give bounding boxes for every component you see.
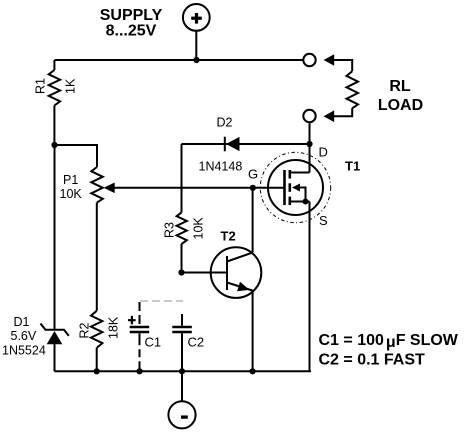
mosfet T1 <box>260 152 330 222</box>
svg-text:C1: C1 <box>145 335 162 350</box>
supply terminal + <box>183 4 210 60</box>
wire RL bottom <box>334 108 353 116</box>
wire R2 to bottom rail <box>96 348 98 371</box>
wire P1 to R2 <box>96 203 98 311</box>
node emitter bottom junction <box>250 368 256 374</box>
svg-text:LOAD: LOAD <box>378 97 423 114</box>
resistor R1 <box>49 70 60 106</box>
wire T2 collector <box>252 188 254 253</box>
RL bottom arrow <box>324 110 335 122</box>
P1 wiper arrow <box>104 183 115 194</box>
svg-text:S: S <box>319 213 328 228</box>
wire R3 to T2 base <box>182 244 228 273</box>
node R2 bottom junction <box>94 368 100 374</box>
svg-text:R2: R2 <box>78 322 92 338</box>
RL top arrow <box>324 54 335 66</box>
node T2 collector junction <box>250 185 256 191</box>
terminal circle lower right <box>303 110 315 122</box>
svg-text:D: D <box>319 145 328 160</box>
node C1 bottom junction <box>136 368 142 374</box>
node drain junction <box>306 141 312 147</box>
svg-text:1K: 1K <box>64 78 78 94</box>
minus terminal <box>168 371 195 428</box>
wire T2 emitter <box>252 291 254 371</box>
wire dashed select line <box>140 300 183 302</box>
svg-text:P1: P1 <box>63 173 78 187</box>
wire left rail upper <box>53 60 55 70</box>
wire gate line <box>114 187 285 189</box>
wire D2 horizontal <box>181 143 309 145</box>
transistor T2 <box>211 247 262 298</box>
resistor R2 <box>91 311 102 348</box>
svg-text:C2 = 0.1 FAST: C2 = 0.1 FAST <box>319 352 425 369</box>
svg-text:5.6V: 5.6V <box>11 329 37 343</box>
svg-text:R1: R1 <box>34 78 48 94</box>
zener D1 <box>41 324 69 345</box>
wire D2 branch vertical <box>181 144 183 212</box>
wire drain lead <box>309 123 311 172</box>
wire top rail <box>55 59 304 61</box>
svg-text:T2: T2 <box>221 229 236 244</box>
svg-text:RL: RL <box>389 78 411 95</box>
svg-text:18K: 18K <box>107 316 121 339</box>
svg-text:G: G <box>248 166 258 181</box>
svg-text:1N4148: 1N4148 <box>199 160 243 174</box>
terminal circle upper right <box>303 54 315 66</box>
diode D2 <box>225 137 240 152</box>
node supply junction <box>193 57 199 63</box>
svg-text:C1 = 100μF SLOW: C1 = 100μF SLOW <box>319 332 459 351</box>
resistor RL <box>347 71 359 108</box>
wire node to P1 <box>55 145 98 167</box>
capacitor C2 <box>172 314 192 371</box>
resistor R3 <box>177 212 187 244</box>
wire left rail to D1 <box>54 145 56 330</box>
wire source lead <box>309 202 311 372</box>
capacitor C1 <box>128 302 149 371</box>
wire D1 to bottom rail <box>54 344 56 371</box>
svg-text:8...25V: 8...25V <box>106 22 157 39</box>
node C2 bottom junction <box>179 368 185 374</box>
svg-text:R3: R3 <box>163 222 177 238</box>
node divider junction <box>51 142 57 148</box>
svg-text:10K: 10K <box>192 217 206 240</box>
node R3 bottom junction <box>178 269 184 275</box>
svg-text:10K: 10K <box>60 187 83 201</box>
svg-text:D2: D2 <box>217 116 233 130</box>
svg-text:D1: D1 <box>14 315 30 329</box>
wire RL top <box>334 60 353 71</box>
wire R1 to node <box>53 106 55 146</box>
svg-text:C2: C2 <box>188 335 205 350</box>
wire bottom rail <box>55 370 312 372</box>
svg-text:1N5524: 1N5524 <box>2 344 46 358</box>
potentiometer P1 <box>91 167 103 203</box>
svg-text:T1: T1 <box>345 159 360 174</box>
